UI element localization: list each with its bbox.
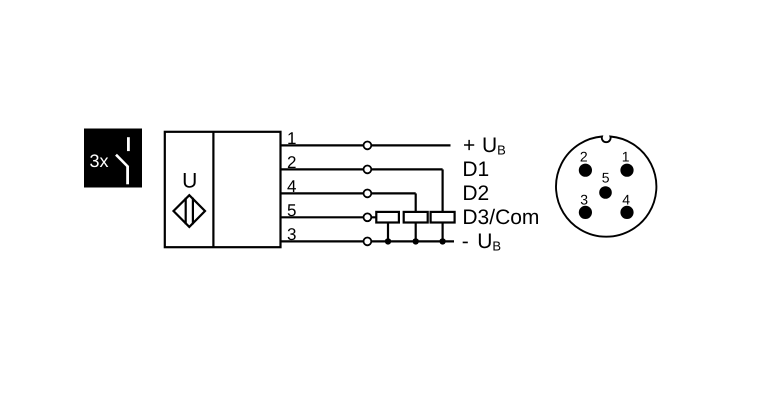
- junction dot R2/-UB: [413, 238, 419, 244]
- svg-text:D1: D1: [462, 158, 489, 181]
- wire pin 2 to D1: [281, 168, 443, 170]
- resistor R2: [404, 212, 428, 223]
- sensor body U1: [165, 132, 281, 247]
- connector pin 3: [579, 206, 592, 219]
- svg-text:4: 4: [622, 191, 630, 207]
- icon: 3x switching output badge: [84, 129, 142, 188]
- connector X1 face (M12, 5-pin) with keying notch: [556, 137, 656, 237]
- svg-text:U: U: [182, 169, 197, 192]
- connector pin 5: [599, 186, 612, 199]
- svg-text:D2: D2: [462, 182, 489, 205]
- svg-text:3: 3: [580, 191, 588, 207]
- svg-text:3x: 3x: [90, 151, 109, 171]
- wire R3 drop to -UB: [442, 223, 444, 242]
- sensor body divider: [212, 132, 214, 247]
- resistor R1: [376, 212, 399, 223]
- wire pin 5 to R1: [281, 216, 377, 218]
- terminal circle pin 3: [364, 238, 372, 246]
- terminal circle pin 2: [364, 166, 372, 174]
- wire D1 drop to R3: [442, 169, 444, 212]
- svg-text:5: 5: [602, 169, 610, 185]
- wire pin 1 to +UB: [281, 144, 451, 146]
- junction dot R1/-UB: [385, 238, 391, 244]
- wire R2 drop to -UB: [415, 223, 417, 242]
- wire pin 3 to -UB: [281, 240, 455, 242]
- wire pin 4 to D2: [281, 192, 416, 194]
- ultrasonic transducer symbol: [174, 195, 206, 227]
- junction dot R3/-UB: [439, 238, 445, 244]
- connector pin 1: [620, 164, 633, 177]
- terminal circle pin 4: [364, 190, 372, 198]
- terminal circle pin 1: [364, 142, 372, 150]
- svg-text:D3/Com: D3/Com: [462, 206, 539, 229]
- svg-text:2: 2: [580, 149, 588, 165]
- wire D2 drop to R2: [415, 193, 417, 212]
- terminal circle pin 5: [364, 213, 372, 221]
- connector pin 2: [579, 164, 592, 177]
- wire R1 drop to -UB: [387, 223, 389, 242]
- connector pin 4: [620, 206, 633, 219]
- svg-text:1: 1: [622, 149, 630, 165]
- resistor R3: [431, 212, 455, 223]
